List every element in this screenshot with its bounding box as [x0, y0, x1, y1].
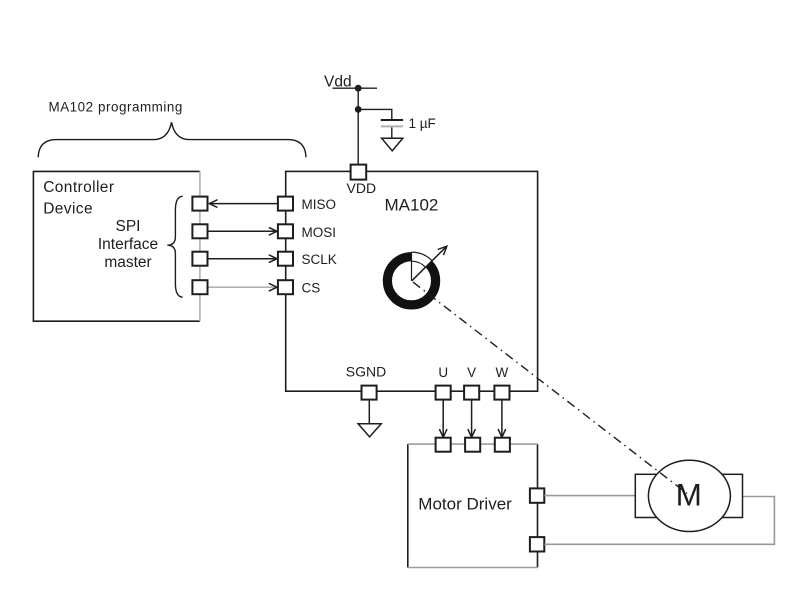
pin W (MA102 bottom): [494, 386, 509, 400]
controller device box: [33, 171, 200, 321]
svg-text:Motor Driver: Motor Driver: [418, 495, 512, 514]
arrowhead W (points down): [498, 429, 506, 437]
arrowhead V (points down): [468, 429, 476, 437]
rotation arrow shaft: [412, 247, 447, 281]
svg-text:Interface: Interface: [98, 236, 158, 253]
svg-text:SPI: SPI: [116, 218, 141, 235]
controller pin 1: [192, 197, 207, 211]
motor M1 body: [648, 460, 730, 531]
motor driver output pin 1 (right): [530, 488, 544, 502]
svg-text:M: M: [676, 477, 702, 513]
motor driver pin W: [495, 438, 510, 452]
rotation arrow head: [438, 246, 447, 255]
IC U1 MA102 body: [286, 171, 538, 391]
capacitor C1 bottom plate: [381, 125, 403, 127]
motor driver pin U: [436, 438, 451, 452]
pin CS (MA102 left): [278, 280, 293, 294]
svg-text:MOSI: MOSI: [302, 225, 337, 240]
arrowhead CS (points right): [269, 283, 277, 291]
wire W to motor driver: [501, 400, 503, 438]
wire U to motor driver: [442, 400, 444, 438]
wire MOSI (controller to MA102): [208, 230, 278, 232]
rotation dial inner thin arc: [412, 261, 426, 267]
arrowhead U (points down): [439, 429, 447, 437]
svg-text:MISO: MISO: [302, 197, 337, 212]
pin VDD (MA102 top): [351, 165, 367, 180]
wire motor phase A (gray): [544, 495, 635, 497]
pin MOSI (MA102 left): [278, 224, 293, 238]
controller pin 4: [192, 280, 207, 294]
pin V (MA102 bottom): [464, 386, 479, 400]
pin SCLK (MA102 left): [278, 252, 293, 266]
svg-text:W: W: [496, 365, 509, 380]
motor driver pin V: [465, 438, 480, 452]
wire MISO (MA102 to controller): [209, 203, 277, 205]
wire SGND to ground: [368, 400, 370, 423]
wire Vdd rail: [333, 87, 378, 89]
svg-text:U: U: [438, 365, 448, 380]
rotation dial radius line at 12 o'clock: [411, 252, 413, 281]
svg-text:Device: Device: [43, 201, 93, 218]
svg-text:SCLK: SCLK: [302, 252, 337, 267]
arrowhead SCLK (points right): [269, 255, 277, 263]
svg-text:CS: CS: [302, 281, 321, 296]
wire CS (gray): [208, 286, 278, 288]
rotation dial outer thin arc: [412, 252, 433, 261]
wire Vdd vertical to VDD pin: [357, 88, 359, 166]
capacitor C1 top plate: [381, 119, 403, 121]
ground symbol at capacitor: [382, 138, 403, 151]
junction dot at capacitor branch: [355, 106, 362, 113]
motor driver output pin 2 (right): [530, 537, 544, 551]
arrowhead MISO (points left): [209, 200, 217, 208]
motor terminal block: [635, 474, 742, 517]
svg-text:SGND: SGND: [346, 363, 386, 379]
ground symbol at SGND: [358, 424, 381, 437]
svg-text:1 µF: 1 µF: [409, 116, 436, 131]
brace SPI pins (vertical): [167, 196, 182, 297]
svg-text:master: master: [104, 254, 151, 271]
svg-text:Controller: Controller: [43, 179, 114, 196]
wire SCLK: [208, 258, 278, 260]
motor driver box top and bottom edges (gray): [408, 444, 538, 567]
controller device box right edge (gray): [199, 171, 201, 321]
svg-text:VDD: VDD: [347, 180, 377, 196]
controller pin 3: [192, 252, 207, 266]
magnet axis dash-dot line: [413, 282, 687, 493]
svg-text:MA102 programming: MA102 programming: [49, 100, 183, 115]
pin SGND (MA102 bottom): [362, 386, 377, 400]
svg-text:MA102: MA102: [385, 196, 439, 215]
controller pin 2: [192, 224, 207, 238]
rotation dial white wedge: [412, 249, 435, 281]
junction dot on Vdd rail: [355, 85, 362, 92]
pin U (MA102 bottom): [436, 386, 451, 400]
wire junction to capacitor C1: [358, 109, 392, 119]
motor driver box left and right edges (black): [408, 444, 538, 567]
wire motor phase B loop (gray): [544, 497, 774, 545]
wire capacitor C1 to ground: [391, 127, 393, 137]
svg-text:V: V: [467, 365, 476, 380]
rotation dial ring: [387, 257, 435, 305]
brace MA102 programming (horizontal): [38, 122, 306, 157]
pin MISO (MA102 left): [278, 197, 293, 211]
wire V to motor driver: [471, 400, 473, 438]
arrowhead MOSI (points right): [269, 227, 277, 235]
